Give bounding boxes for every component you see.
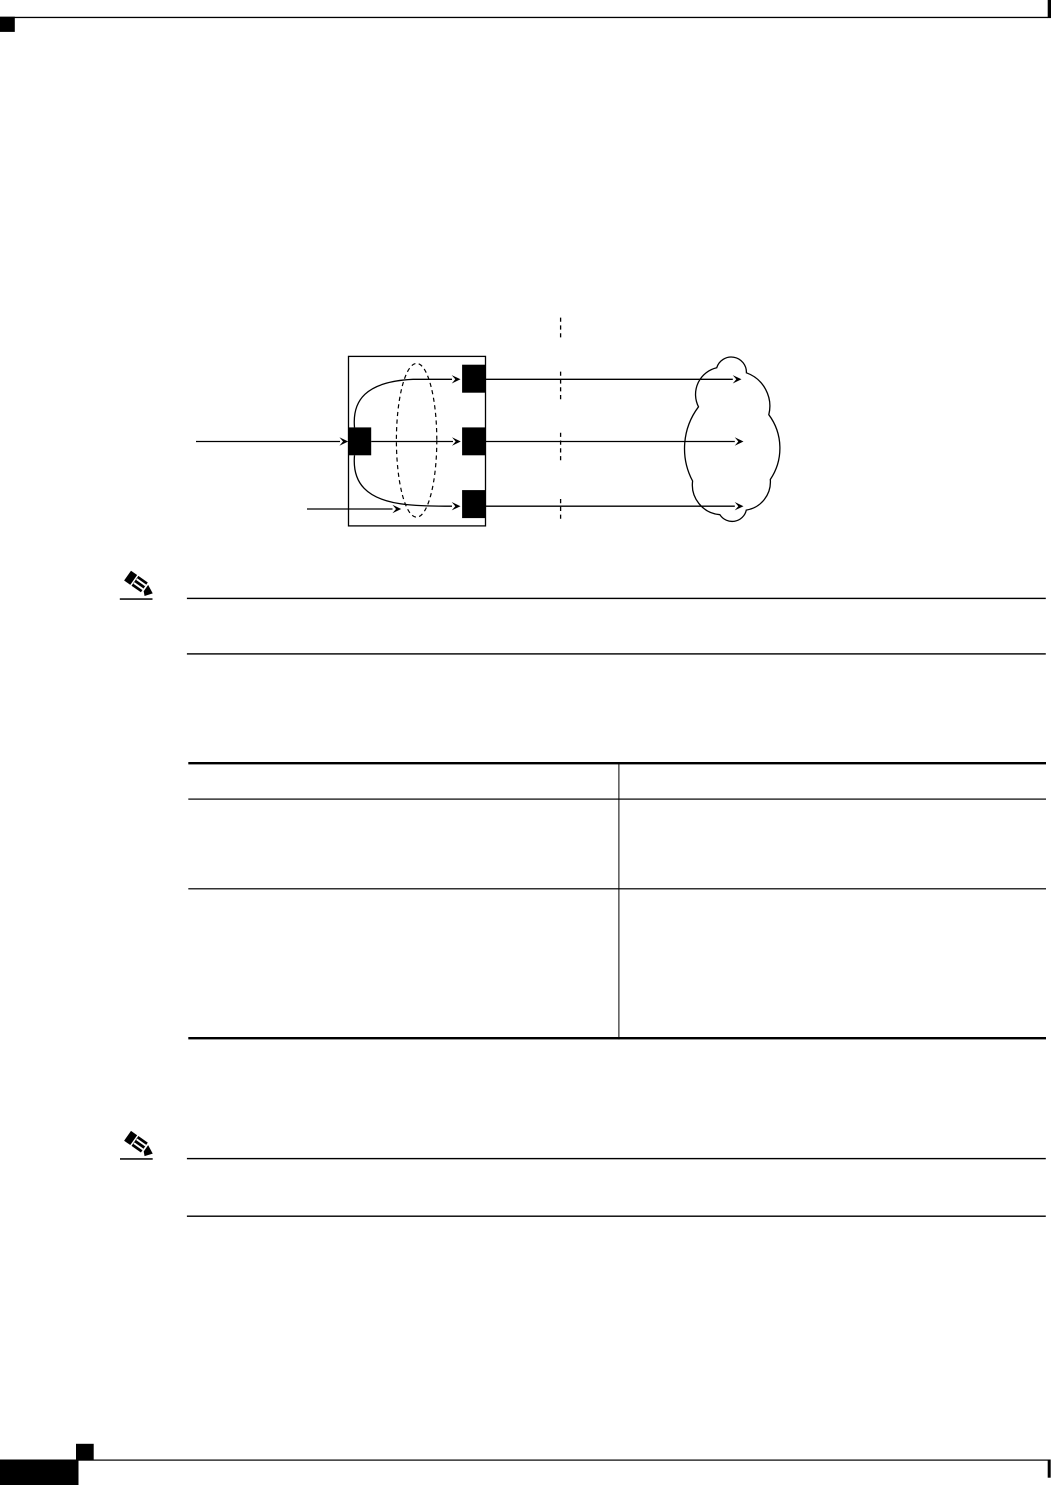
footer rule: [79, 1460, 1049, 1461]
figure: dashed ellipse: [396, 363, 436, 517]
wire: bottom arrow to cloud: [486, 502, 744, 510]
wire: middle arrow to cloud: [486, 437, 744, 445]
dashed boundary line segment 3: [560, 433, 562, 461]
figure: bottom output square: [462, 490, 486, 518]
note 1 bottom rule: [187, 653, 1046, 654]
cloud: [685, 357, 780, 521]
footer block: [0, 1460, 79, 1485]
note 1 pencil icon: [124, 571, 157, 599]
table row separator rule: [188, 888, 1046, 889]
table bottom rule (thick): [188, 1037, 1046, 1039]
wire: short bottom input arrow: [307, 505, 401, 513]
note 1 icon underline: [120, 598, 153, 600]
dashed boundary line segment 4: [560, 499, 562, 519]
wire: incoming arrow to left square: [196, 437, 348, 445]
figure: outer box: [349, 356, 486, 526]
table header separator rule: [188, 799, 1046, 800]
figure: middle output square: [462, 427, 486, 455]
table column divider: [618, 762, 619, 1039]
note 2 icon underline: [120, 1158, 153, 1160]
dashed boundary line segment 1: [560, 318, 562, 339]
wire: top internal curve arrow: [354, 375, 460, 427]
note 1 top rule: [187, 598, 1046, 599]
footer small square: [76, 1444, 94, 1460]
footer right tick: [1048, 1460, 1051, 1478]
header right edge bar: [1048, 0, 1051, 18]
wire: top arrow to cloud: [486, 375, 742, 383]
wire: middle internal arrow: [371, 437, 461, 445]
note 2 top rule: [187, 1158, 1046, 1159]
note 2 bottom rule: [187, 1216, 1046, 1217]
header rule: [0, 17, 1048, 18]
note 2 pencil icon: [124, 1131, 157, 1159]
wire: bottom internal curve arrow: [354, 455, 460, 510]
figure: top output square: [462, 365, 486, 393]
dashed boundary line segment 2: [560, 372, 562, 400]
figure: left input square: [349, 427, 371, 455]
table top rule (thick): [188, 762, 1046, 764]
header corner square: [0, 17, 15, 32]
